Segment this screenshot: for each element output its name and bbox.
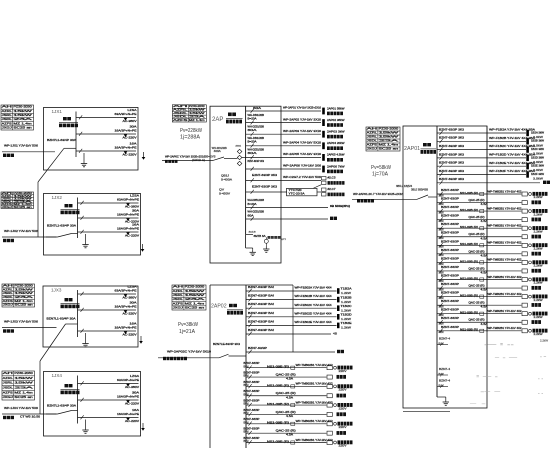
svg-text:WP-2AP05 YJV-1kV 3X16: WP-2AP05 YJV-1kV 3X16	[283, 152, 322, 156]
svg-text:JSDL: JSDL	[2, 118, 13, 121]
svg-text:BZN7-63/3P: BZN7-63/3P	[441, 274, 459, 277]
svg-text:BZN7-63/3P 3K3: BZN7-63/3P 3K3	[248, 159, 265, 163]
svg-text:JSRL: JSRL	[367, 136, 378, 139]
svg-text:2AP: 2AP	[212, 117, 223, 123]
svg-text:WH-DB1/20B: WH-DB1/20B	[248, 136, 265, 140]
svg-text:1.2kW: 1.2kW	[341, 309, 352, 312]
svg-text:BZN7-63/3P 3K3: BZN7-63/3P 3K3	[439, 169, 465, 173]
svg-text:PZ30-2030: PZ30-2030	[185, 286, 206, 289]
svg-text:YTC-20 5A: YTC-20 5A	[289, 192, 305, 195]
svg-text:BZN7-63/3P: BZN7-63/3P	[248, 346, 267, 350]
svg-text:60A: 60A	[248, 128, 258, 132]
svg-text:2.2kW: 2.2kW	[534, 316, 544, 319]
svg-text:WP-TMB2B1 YJV-1kV 4X2: WP-TMB2B1 YJV-1kV 4X2	[488, 224, 523, 227]
svg-text:BZN7-63/3P BA!: BZN7-63/3P BA!	[248, 328, 274, 332]
svg-text:1.2kW: 1.2kW	[341, 301, 352, 304]
svg-text:BZN7-63/3P: BZN7-63/3P	[244, 437, 260, 440]
svg-text:CT W5 10.50: CT W5 10.50	[20, 415, 41, 419]
svg-text:LZSA: LZSA	[130, 193, 139, 197]
svg-text:SC25 an: SC25 an	[13, 206, 33, 209]
svg-text:BZN7-63/3P 3K3: BZN7-63/3P 3K3	[439, 136, 465, 140]
svg-text:23A: 23A	[13, 118, 33, 121]
svg-text:BZN7-63/3P: BZN7-63/3P	[441, 326, 459, 329]
svg-text:WP-TMB2B1 YJV-1kV 4X2: WP-TMB2B1 YJV-1kV 4X2	[488, 242, 523, 245]
svg-text:BZN7-63/3P: BZN7-63/3P	[441, 317, 459, 320]
svg-text:AC-220V: AC-220V	[125, 419, 139, 423]
svg-text:PZ30-2030: PZ30-2030	[379, 128, 400, 131]
svg-text:BZN7-63/3P: BZN7-63/3P	[244, 418, 260, 421]
svg-text:WP-TMB2B1 YJV-1kV 4X2: WP-TMB2B1 YJV-1kV 4X2	[488, 259, 523, 262]
svg-text:AC-380V: AC-380V	[125, 385, 139, 389]
svg-text:1B2F 3kW: 1B2F 3kW	[531, 172, 545, 176]
svg-text:16A/3P+N+PE: 16A/3P+N+PE	[117, 412, 139, 416]
svg-text:15kW: 15kW	[13, 114, 33, 117]
svg-text:Pv=58kW: Pv=58kW	[371, 165, 391, 171]
svg-text:2AP02 38kW: 2AP02 38kW	[327, 118, 345, 122]
svg-text:QAC-25 (R): QAC-25 (R)	[469, 319, 485, 322]
svg-text:T1B2D: T1B2D	[341, 313, 352, 316]
svg-text:23A: 23A	[14, 386, 34, 389]
svg-text:AZFS: AZFS	[3, 391, 14, 394]
svg-text:BZN7-63/3P: BZN7-63/3P	[441, 223, 459, 226]
svg-text:1B2C 3kW: 1B2C 3kW	[531, 147, 545, 151]
svg-text:3B!: 3B!	[439, 332, 445, 334]
svg-text:WP-2AP01 YJV-1kV 3X25+2X16: WP-2AP01 YJV-1kV 3X25+2X16	[283, 106, 322, 110]
svg-text:BZN7-63/3P: BZN7-63/3P	[441, 232, 459, 235]
svg-text:JXGJ: JXGJ	[3, 396, 14, 399]
svg-text:AC-220V: AC-220V	[123, 312, 137, 316]
svg-text:Pv=38kW: Pv=38kW	[178, 322, 198, 328]
svg-text:QAC-25 (R): QAC-25 (R)	[276, 411, 296, 414]
svg-text:- . --: - . --	[495, 356, 518, 359]
svg-text:QAC-25 (R): QAC-25 (R)	[276, 392, 296, 395]
svg-text:220V: 220V	[339, 445, 348, 448]
svg-text:220V: 220V	[339, 370, 348, 373]
svg-text:15kW: 15kW	[14, 288, 34, 291]
svg-text:B=20A: B=20A	[248, 116, 257, 120]
svg-text:400A: 400A	[235, 145, 241, 148]
svg-text:BZN7-63/3P: BZN7-63/3P	[441, 283, 459, 286]
svg-text:2.2kW: 2.2kW	[540, 340, 549, 342]
svg-text:2.2kW: 2.2kW	[534, 282, 544, 285]
svg-text:1j=70A: 1j=70A	[372, 172, 389, 178]
svg-text:AH: AH	[3, 372, 14, 375]
svg-text:AC-220V: AC-220V	[125, 402, 139, 406]
svg-text:4.5A: 4.5A	[481, 220, 489, 223]
svg-text:BZN7-63/3P: BZN7-63/3P	[244, 371, 260, 374]
svg-text:2AP01 58kW: 2AP01 58kW	[327, 106, 345, 110]
svg-text:BZN7-63/3P: BZN7-63/3P	[441, 198, 459, 201]
svg-text:WP-F1B02C YJV-1kV 4X4: WP-F1B02C YJV-1kV 4X4	[295, 304, 333, 307]
svg-text:JXGJ: JXGJ	[2, 206, 13, 209]
svg-text:E2N7-63/3P 3K3: E2N7-63/3P 3K3	[252, 185, 278, 189]
svg-text:AH: AH	[173, 286, 184, 289]
svg-text:3MTB 6A: 3MTB 6A	[254, 235, 266, 238]
svg-text:AH: AH	[367, 128, 378, 131]
svg-text:JSRL: JSRL	[2, 114, 13, 117]
svg-text:BZN7L1-63/4P 30A: BZN7L1-63/4P 30A	[47, 404, 76, 408]
svg-text:- .: - .	[470, 402, 489, 405]
svg-text:NS1-09B (R): NS1-09B (R)	[460, 277, 478, 280]
svg-text:JXGJ: JXGJ	[2, 126, 13, 129]
svg-text:AZRL: AZRL	[3, 377, 14, 380]
svg-text:QAC-25 (R): QAC-25 (R)	[276, 430, 296, 433]
svg-text:2.2kW: 2.2kW	[534, 230, 544, 233]
svg-text:PZ30-2030: PZ30-2030	[14, 372, 33, 375]
svg-text:BZN7-63/3P: BZN7-63/3P	[244, 362, 260, 365]
svg-text:SC25 an: SC25 an	[379, 148, 400, 151]
svg-text:220V: 220V	[339, 407, 348, 410]
svg-text:30A: 30A	[130, 300, 137, 304]
svg-text:BZN7-63/3P 3K3: BZN7-63/3P 3K3	[439, 161, 465, 165]
svg-text:WP-F1B02D YJV-1kV 4X4: WP-F1B02D YJV-1kV 4X4	[295, 312, 333, 315]
svg-text:QAC-25 (R): QAC-25 (R)	[469, 302, 485, 305]
svg-text:AC-220V: AC-220V	[123, 333, 137, 337]
svg-text:1B2E 3kW: 1B2E 3kW	[531, 164, 545, 168]
svg-text:MZ 1.4m: MZ 1.4m	[189, 119, 205, 122]
svg-text:T1B2B: T1B2B	[341, 296, 352, 299]
svg-text:AZFS: AZFS	[367, 144, 378, 147]
svg-text:NS1-09B (R): NS1-09B (R)	[460, 260, 478, 263]
svg-text:63A/3P+N+PE: 63A/3P+N+PE	[115, 288, 137, 292]
svg-text:QAC-25 (R): QAC-25 (R)	[469, 233, 485, 236]
svg-text:NS1-09B (R): NS1-09B (R)	[460, 329, 478, 332]
svg-text:MZ 1.4m: MZ 1.4m	[185, 302, 205, 305]
svg-text:QAC-25 (R): QAC-25 (R)	[469, 199, 485, 202]
svg-text:B=20A: B=20A	[248, 140, 257, 144]
svg-text:2.2kW: 2.2kW	[534, 333, 544, 336]
svg-text:2.2kW: 2.2kW	[534, 299, 544, 302]
svg-text:BZN7-63/3P: BZN7-63/3P	[244, 428, 260, 431]
svg-text:220V: 220V	[339, 426, 348, 429]
svg-text:WP-2AP03 YJV-1kV 3X16: WP-2AP03 YJV-1kV 3X16	[283, 129, 322, 133]
svg-text:60A: 60A	[253, 106, 261, 110]
svg-text:30A: 30A	[132, 390, 139, 394]
svg-text:23A: 23A	[14, 296, 34, 299]
svg-text:QAC-25 (R): QAC-25 (R)	[276, 374, 296, 377]
svg-text:MZ 1.4m: MZ 1.4m	[379, 144, 399, 147]
svg-text:16A: 16A	[132, 222, 139, 226]
svg-text:63A/3P+N+PE: 63A/3P+N+PE	[117, 378, 139, 382]
svg-text:WP-TMB2B1 YJV-1kV 4X2: WP-TMB2B1 YJV-1kV 4X2	[488, 327, 523, 330]
svg-text:BZN7-63/3P 3K3: BZN7-63/3P 3K3	[439, 127, 465, 131]
svg-text:BZN7-63/3P: BZN7-63/3P	[441, 206, 459, 209]
svg-text:AZFS: AZFS	[173, 119, 188, 122]
svg-text:30A: 30A	[130, 124, 137, 128]
svg-text:BZN7-4: BZN7-4	[439, 368, 451, 371]
svg-text:NS1-09B (R): NS1-09B (R)	[460, 312, 478, 315]
svg-text:.-- : ..: .-- : ..	[484, 343, 516, 346]
svg-text:B5=2Y5: B5=2Y5	[205, 155, 217, 158]
svg-text:AC-380V: AC-380V	[123, 296, 137, 300]
svg-text:NS1-09B (R): NS1-09B (R)	[267, 422, 289, 425]
svg-text:1j=21A: 1j=21A	[179, 329, 196, 335]
svg-text:T1B2C: T1B2C	[341, 305, 352, 308]
svg-text:JSDL: JSDL	[3, 296, 14, 299]
svg-text:BZN7-63/3P: BZN7-63/3P	[244, 409, 260, 412]
svg-text:1.2kW: 1.2kW	[341, 292, 352, 295]
svg-text:BZN7L1-63/4P 30A: BZN7L1-63/4P 30A	[47, 138, 76, 142]
svg-text:15kW: 15kW	[14, 292, 34, 295]
svg-text:BZN7-63/3P: BZN7-63/3P	[244, 381, 260, 384]
svg-text:1JX4: 1JX4	[52, 373, 63, 378]
svg-text:AZRL: AZRL	[2, 110, 13, 113]
svg-text:AZRL: AZRL	[367, 132, 378, 135]
svg-text:1j=288A: 1j=288A	[180, 134, 201, 140]
svg-text:WP-2AP6C YJV-1kV 3X35+2X16: WP-2AP6C YJV-1kV 3X35+2X16	[165, 155, 205, 159]
svg-text:BZN7LE-63/4P 3K3: BZN7LE-63/4P 3K3	[213, 342, 241, 346]
svg-text:2.2kW: 2.2kW	[534, 213, 544, 216]
svg-text:BZN7-63/3P: BZN7-63/3P	[244, 390, 260, 393]
svg-text:15kW: 15kW	[379, 136, 401, 139]
svg-text:WP-TMB2B1 YJV-1kV 4X2: WP-TMB2B1 YJV-1kV 4X2	[488, 310, 523, 313]
svg-text:1B2A 3kW: 1B2A 3kW	[531, 130, 545, 134]
svg-text:B=20A: B=20A	[248, 202, 257, 206]
svg-text:1B2B 3kW: 1B2B 3kW	[531, 139, 545, 143]
svg-text:3x18: 3x18	[249, 231, 257, 233]
svg-text:WP-2AP06 YJV-1kV 3X6: WP-2AP06 YJV-1kV 3X6	[283, 164, 322, 168]
svg-text:SC25 an: SC25 an	[185, 306, 206, 309]
svg-text:QB1J: QB1J	[221, 174, 230, 178]
svg-text:BZN7-63/3P BA!: BZN7-63/3P BA!	[248, 302, 274, 306]
svg-text:WP-F1B02A YJV-1kV 4X4: WP-F1B02A YJV-1kV 4X4	[295, 287, 333, 290]
svg-text:WP-C2G7.2 YJV-1kV 5X6: WP-C2G7.2 YJV-1kV 5X6	[283, 175, 322, 179]
svg-text:BZN7L1-63/4P 30A: BZN7L1-63/4P 30A	[47, 224, 76, 228]
svg-text:15kW: 15kW	[13, 110, 33, 113]
svg-text:WP-1JX4 YJV-1kV 5X6: WP-1JX4 YJV-1kV 5X6	[4, 406, 39, 410]
svg-text:2AP01: 2AP01	[404, 146, 420, 152]
svg-text:3.0kW: 3.0kW	[533, 177, 544, 181]
svg-text:2.2kW: 2.2kW	[534, 265, 544, 268]
svg-text:LZSA: LZSA	[128, 284, 137, 288]
svg-text:4.5A: 4.5A	[481, 289, 489, 292]
svg-text:2AP05 4.5kW: 2AP05 4.5kW	[327, 153, 345, 157]
svg-text:QAC-25 (R): QAC-25 (R)	[469, 267, 485, 270]
svg-text:BZN7-4: BZN7-4	[439, 380, 451, 383]
svg-text:Pv=228kW: Pv=228kW	[180, 128, 202, 134]
svg-text:BZN7-63/3P: BZN7-63/3P	[244, 399, 260, 402]
svg-text:NS1-09B (R): NS1-09B (R)	[460, 243, 478, 246]
svg-text:QAC-25 (R): QAC-25 (R)	[469, 216, 485, 219]
svg-text:JXGJ: JXGJ	[367, 148, 379, 151]
svg-text:4.5A: 4.5A	[481, 272, 489, 275]
svg-text:JSRL: JSRL	[173, 294, 184, 297]
svg-text:16A/3P+N+PE: 16A/3P+N+PE	[117, 226, 139, 230]
svg-text:T1B2A: T1B2A	[341, 288, 352, 291]
svg-text:NS1-09B (R): NS1-09B (R)	[267, 440, 289, 443]
svg-text:AZFS: AZFS	[173, 302, 184, 305]
svg-text:BZN7-63/3P: BZN7-63/3P	[441, 215, 459, 218]
svg-text:NS1-09B (R): NS1-09B (R)	[460, 192, 478, 195]
svg-text:4.5A: 4.5A	[286, 378, 294, 381]
svg-text:JSRL: JSRL	[3, 292, 14, 295]
svg-text:AC-220V: AC-220V	[123, 136, 137, 140]
svg-text:WP-F1B02E YJV-1kV 4X4: WP-F1B02E YJV-1kV 4X4	[295, 321, 333, 324]
svg-text:220V: 220V	[339, 389, 348, 392]
svg-text:BZN7-63/3P: BZN7-63/3P	[441, 189, 459, 192]
svg-text:4.5A: 4.5A	[286, 396, 294, 399]
svg-text:AH: AH	[2, 106, 13, 109]
svg-text:2AP04 20kW: 2AP04 20kW	[327, 141, 345, 145]
svg-text:AC-220V: AC-220V	[123, 153, 137, 157]
svg-text:16A/3P+N+PE: 16A/3P+N+PE	[115, 128, 137, 132]
svg-text:2AP03 3kW: 2AP03 3kW	[327, 130, 345, 134]
svg-text:0-450V: 0-450V	[219, 192, 230, 196]
svg-text:2.2kW: 2.2kW	[534, 196, 544, 199]
svg-text:JXGJ: JXGJ	[173, 306, 185, 309]
svg-text:WP-2AP02C YJV-1kV 5X10: WP-2AP02C YJV-1kV 5X10	[167, 350, 212, 354]
svg-text:4.5A: 4.5A	[286, 415, 294, 418]
svg-text:4.5A: 4.5A	[481, 237, 489, 240]
svg-text:MZ 1.4m: MZ 1.4m	[13, 122, 31, 125]
svg-text:WP-1JX1 YJV-1kV 5X6: WP-1JX1 YJV-1kV 5X6	[4, 144, 39, 148]
svg-text:16A: 16A	[132, 408, 139, 412]
svg-text:WH-DZ51/20B: WH-DZ51/20B	[248, 124, 265, 128]
svg-text:30A: 30A	[132, 208, 139, 212]
svg-text:#2.C7: #2.C7	[328, 187, 337, 191]
svg-text:: -- .: : -- .	[476, 375, 500, 378]
svg-text:SC25 an: SC25 an	[14, 396, 34, 399]
svg-text:4.5A: 4.5A	[481, 306, 489, 309]
svg-text:NS1-09B (R): NS1-09B (R)	[460, 209, 478, 212]
svg-text:NS1-09B (R): NS1-09B (R)	[460, 294, 478, 297]
svg-text:16A/3P+N+PE: 16A/3P+N+PE	[117, 212, 139, 216]
svg-text:BZN7-63/3P BA!: BZN7-63/3P BA!	[248, 294, 274, 298]
svg-text:JXGJ: JXGJ	[3, 304, 14, 307]
svg-text:WH-DB51/20B: WH-DB51/20B	[248, 198, 265, 202]
svg-text:WP-F1B02B YJV-1kV 4X4: WP-F1B02B YJV-1kV 4X4	[295, 295, 333, 298]
svg-text:WP-TMB2B1 YJV-1kV 4X2: WP-TMB2B1 YJV-1kV 4X2	[488, 276, 523, 279]
svg-text:15kW: 15kW	[185, 294, 207, 297]
svg-text:SC25 an: SC25 an	[13, 126, 33, 129]
svg-text:#2.C5: #2.C5	[328, 175, 337, 179]
svg-text:6B NNG(3Px): 6B NNG(3Px)	[330, 204, 350, 208]
svg-text:63A/3P+N+PE: 63A/3P+N+PE	[117, 197, 139, 201]
svg-text:16A/3P+N+PE: 16A/3P+N+PE	[117, 394, 139, 398]
svg-text:15kW: 15kW	[379, 132, 401, 135]
svg-text:16A/3P+N+PE: 16A/3P+N+PE	[115, 145, 137, 149]
svg-text:.- -: .- -	[480, 390, 501, 393]
svg-text:JSRL: JSRL	[3, 382, 14, 385]
svg-text:AZRL: AZRL	[3, 288, 14, 291]
svg-text:23A: 23A	[379, 140, 400, 143]
svg-text:WP-TMB2B1 YJV-1kV 4X2: WP-TMB2B1 YJV-1kV 4X2	[488, 207, 523, 210]
svg-text:15kW: 15kW	[14, 377, 34, 380]
svg-text:3B1J 3B5/43B: 3B1J 3B5/43B	[411, 189, 428, 192]
svg-text:PZ30-2030: PZ30-2030	[13, 106, 32, 109]
svg-text:WH-DB1/20B: WH-DB1/20B	[248, 113, 265, 117]
svg-text:16A/3P+N+PE: 16A/3P+N+PE	[115, 304, 137, 308]
svg-text:AZFS: AZFS	[2, 122, 13, 125]
svg-text:E2N7-63/3P 3K3: E2N7-63/3P 3K3	[252, 173, 278, 177]
svg-text:2AP06 7kW: 2AP06 7kW	[327, 164, 345, 168]
svg-text:SC25 an: SC25 an	[14, 304, 34, 307]
svg-text:QAC-25 (R): QAC-25 (R)	[469, 250, 485, 253]
svg-text:MZ 1.4m: MZ 1.4m	[14, 300, 32, 303]
svg-text:1JX3: 1JX3	[51, 288, 62, 293]
svg-text:BZN7-63/3P BA!: BZN7-63/3P BA!	[248, 311, 274, 315]
svg-text:15kW: 15kW	[14, 382, 34, 385]
svg-text:BZN7-63/3P: BZN7-63/3P	[441, 257, 459, 260]
svg-text:1B2D 3kW: 1B2D 3kW	[531, 155, 545, 159]
svg-text:BZN7-63/3P: BZN7-63/3P	[441, 240, 459, 243]
svg-text:WP-2AP04 YJV-1kV 5X10: WP-2AP04 YJV-1kV 5X10	[283, 141, 322, 145]
svg-text:AC-220V: AC-220V	[125, 234, 139, 238]
svg-text:BZN7-63/3P: BZN7-63/3P	[441, 309, 459, 312]
svg-text:BZN7-63/3P: BZN7-63/3P	[441, 300, 459, 303]
svg-text:BZN7-63/3P BA!: BZN7-63/3P BA!	[248, 319, 274, 323]
svg-text:1.2kW: 1.2kW	[341, 327, 352, 330]
svg-text:WP-2AP02 YJV-1kV 3X10: WP-2AP02 YJV-1kV 3X10	[283, 117, 322, 121]
svg-text:2AP02: 2AP02	[211, 304, 227, 310]
svg-text:. -: . -	[540, 356, 547, 358]
svg-text:LZSA: LZSA	[128, 108, 137, 112]
svg-text:JSDL: JSDL	[3, 386, 14, 389]
svg-text:JSDL: JSDL	[367, 140, 378, 143]
svg-text:16A/3P+N+PE: 16A/3P+N+PE	[115, 325, 137, 329]
svg-text:63A/3P+N+PE: 63A/3P+N+PE	[115, 112, 137, 116]
svg-text:WP-1JX3 YJV-1kV 5X6: WP-1JX3 YJV-1kV 5X6	[4, 319, 39, 323]
svg-text:BZN7-63/3P BA!: BZN7-63/3P BA!	[248, 285, 274, 289]
svg-text:16A: 16A	[130, 141, 137, 145]
svg-text:BZN7-63/3P 3K3: BZN7-63/3P 3K3	[439, 177, 465, 181]
svg-text:1.2kW: 1.2kW	[341, 318, 352, 321]
svg-text:4.5A: 4.5A	[286, 434, 294, 437]
svg-text:BZN7-4: BZN7-4	[439, 338, 451, 341]
svg-text:15kW: 15kW	[185, 290, 207, 293]
svg-text:BZN7-63/3P: BZN7-63/3P	[441, 249, 459, 252]
svg-text:BZN7-63/3P 3K3: BZN7-63/3P 3K3	[439, 152, 465, 156]
svg-text:BZN7L1-63/4P 30A: BZN7L1-63/4P 30A	[47, 317, 76, 321]
svg-text:4.5A: 4.5A	[481, 323, 489, 326]
svg-text:T1B2E: T1B2E	[341, 322, 352, 325]
svg-text:WP-TMB2B1 YJV-1kV 4X2: WP-TMB2B1 YJV-1kV 4X2	[488, 293, 523, 296]
svg-text:0-400A: 0-400A	[221, 178, 232, 182]
svg-text:2.2kW: 2.2kW	[534, 247, 544, 250]
svg-text:23A: 23A	[185, 298, 206, 301]
svg-text:PZ30-2030: PZ30-2030	[14, 284, 33, 287]
svg-text:WH-DZ51/20B: WH-DZ51/20B	[248, 148, 265, 152]
svg-text:AC-380V: AC-380V	[125, 205, 139, 209]
svg-text:4B: 4B	[333, 332, 337, 335]
svg-text:400A: 400A	[214, 150, 221, 153]
svg-text:WP-TMB2B1 YJV-1kV 4X2: WP-TMB2B1 YJV-1kV 4X2	[488, 190, 523, 193]
svg-text:NS1-09B (R): NS1-09B (R)	[267, 366, 289, 369]
svg-text:QV: QV	[219, 188, 224, 192]
svg-text:BZN7-63/3P: BZN7-63/3P	[441, 266, 459, 269]
svg-text:BZN7-63/3P 3K3: BZN7-63/3P 3K3	[439, 144, 465, 148]
svg-text:60A: 60A	[248, 213, 254, 217]
svg-text:LZSA: LZSA	[130, 374, 139, 378]
svg-text:NS1-09B (R): NS1-09B (R)	[267, 403, 289, 406]
svg-text:AH: AH	[3, 284, 14, 287]
svg-text:4.5A: 4.5A	[481, 203, 489, 206]
svg-text:WP-2AP01.2C.7 YJV-1kV 3X25+2X1: WP-2AP01.2C.7 YJV-1kV 3X25+2X16	[353, 192, 404, 196]
svg-text:16A: 16A	[130, 321, 137, 325]
svg-text:AZRL: AZRL	[173, 290, 184, 293]
svg-text:NS1-09B (R): NS1-09B (R)	[460, 226, 478, 229]
svg-text:MZ 1.4m: MZ 1.4m	[14, 391, 32, 394]
svg-text:AC-380V: AC-380V	[123, 119, 137, 123]
svg-text:JSDL: JSDL	[173, 298, 184, 301]
svg-text:WP-1JX2 YJV-1kV 5X6: WP-1JX2 YJV-1kV 5X6	[4, 229, 39, 233]
svg-text:WH-DZ51/20B: WH-DZ51/20B	[248, 210, 265, 214]
svg-text:NS1-09B (R): NS1-09B (R)	[267, 384, 289, 387]
svg-text:60A: 60A	[248, 151, 258, 155]
svg-text:QAC-25 (R): QAC-25 (R)	[469, 285, 485, 288]
svg-text:1JX1: 1JX1	[52, 109, 63, 114]
svg-text:3B5.2 1B(5/4: 3B5.2 1B(5/4	[396, 185, 413, 188]
